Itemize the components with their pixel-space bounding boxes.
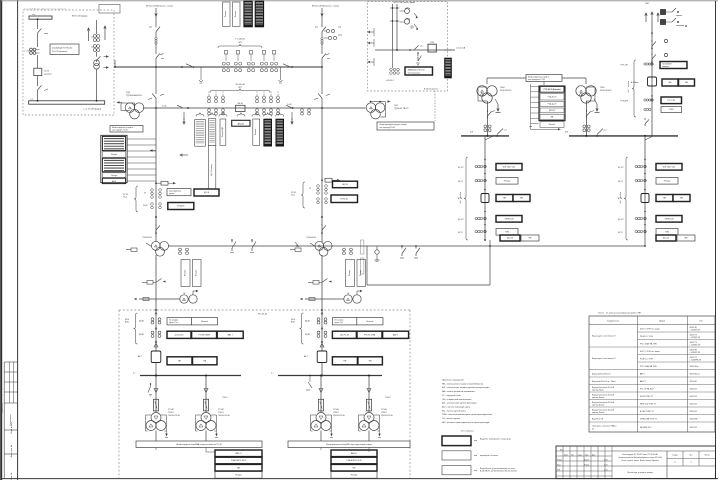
cabinet top label box xyxy=(526,75,562,82)
NTMI bay1 label xyxy=(142,237,152,239)
long label box left xyxy=(136,441,262,448)
bay 2 line top arrow xyxy=(321,8,323,25)
bay 1 line top arrow xyxy=(155,8,157,25)
table title xyxy=(598,312,641,315)
svg-text:УТМ-З: УТМ-З xyxy=(218,412,223,414)
svg-text:026027-РМ: 026027-РМ xyxy=(690,418,698,420)
svg-text:ЗРНВ-З АВ ТОПЗ ТЗ: ЗРНВ-З АВ ТОПЗ ТЗ xyxy=(640,417,657,420)
tie CT label xyxy=(210,84,270,93)
svg-text:ячейка: ячейка xyxy=(459,192,462,198)
svg-text:щитов 2 б/о: щитов 2 б/о xyxy=(334,322,343,324)
svg-text:А-З-Мрка: А-З-Мрка xyxy=(631,81,638,84)
svg-text:Инв. №: Инв. № xyxy=(10,472,13,480)
svg-text:Резерв: Резерв xyxy=(185,270,187,276)
svg-text:с.ш.: с.ш. xyxy=(32,14,36,16)
svg-text:ячейка: ячейка xyxy=(627,81,630,87)
NTMI bay1 xyxy=(151,241,168,256)
svg-text:1с-35: 1с-35 xyxy=(287,104,292,106)
transformer T1 frame wire xyxy=(121,103,135,111)
svg-text:РТ2 ТЗ, НВ, АУО: РТ2 ТЗ, НВ, АУО xyxy=(640,387,654,390)
KTP breaker 2SV-10 xyxy=(428,42,436,52)
dashed enclosure RU-10kV xyxy=(119,310,410,478)
svg-text:ЭКРА 208: ЭКРА 208 xyxy=(664,218,674,221)
text c.sh. 10kV xyxy=(83,108,102,111)
input bay1 brace xyxy=(125,313,138,344)
svg-text:ЩУ-В1: ЩУ-В1 xyxy=(139,321,144,323)
bay2 TN wire xyxy=(300,298,344,301)
transformer T3 label xyxy=(500,87,512,92)
frame bottom border line xyxy=(1,478,718,480)
input bay1 wire into box xyxy=(155,309,157,351)
bay2 fuse switch mid xyxy=(308,279,332,285)
svg-text:ТДТН-40 ТВ-УЗ: ТДТН-40 ТВ-УЗ xyxy=(394,108,409,110)
panel box 2 tall xyxy=(208,119,216,194)
line feeder top text xyxy=(645,3,659,22)
line feeder wire xyxy=(651,22,653,136)
bay1 fuse switch mid xyxy=(142,279,166,285)
svg-text:РТ2 СУ АВ, НВ, ЗРВ: РТ2 СУ АВ, НВ, ЗРВ xyxy=(640,365,657,368)
svg-text:АВ Т: АВ Т xyxy=(138,355,142,358)
svg-text:№1: №1 xyxy=(627,90,630,93)
svg-text:АВ Т: АВ Т xyxy=(304,355,308,358)
svg-text:авто зарядного ТС-35: авто зарядного ТС-35 xyxy=(528,79,545,81)
bus drop ground 2 xyxy=(279,67,283,83)
tie switch right xyxy=(286,105,293,109)
svg-text:ЩС-10 завод: ЩС-10 завод xyxy=(211,163,213,175)
svg-text:Разраб: Разраб xyxy=(557,459,562,461)
line feeder CTgroup xyxy=(620,62,687,69)
svg-text:ЩУ 107: ЩУ 107 xyxy=(458,219,464,221)
svg-text:РТД-35-УЗ: РТД-35-УЗ xyxy=(548,97,557,99)
svg-text:АВ2-О: АВ2-О xyxy=(235,452,241,455)
svg-text:Резерв: Резерв xyxy=(360,270,362,276)
input bay2 CT cluster xyxy=(305,318,327,338)
legend item 2 xyxy=(442,451,499,460)
bay 2 disconnector top xyxy=(315,25,326,37)
svg-text:Ввод защиты с обеспечения Т: Ввод защиты с обеспечения Т xyxy=(592,335,616,337)
outgoing chain A xyxy=(458,136,530,240)
tie breaker box SV xyxy=(236,103,246,112)
bay2 chain row1 xyxy=(309,181,358,194)
panel braces xyxy=(196,113,284,117)
svg-text:Ввод защиты с обеспечения Т: Ввод защиты с обеспечения Т xyxy=(592,358,616,360)
bay 2 earth switch tick xyxy=(326,54,330,59)
svg-text:Изм: Изм xyxy=(560,449,563,451)
bay1 chain row1 xyxy=(144,189,219,199)
left bottom stack xyxy=(215,450,262,478)
dashed enclosure OPU 10kV xyxy=(23,10,114,115)
switch lower 2 xyxy=(414,245,420,258)
frame left border line xyxy=(17,0,19,480)
bay2 brace xyxy=(291,182,305,208)
line feeder switch1 xyxy=(652,39,668,48)
svg-text:Лист: Лист xyxy=(689,455,693,457)
page left edge dark strip xyxy=(0,0,2,480)
input bay2 brace xyxy=(291,313,304,344)
svg-text:РЗ АУ 12 / 3 РН: РЗ АУ 12 / 3 РН xyxy=(640,335,653,338)
notes text block xyxy=(442,380,493,424)
svg-text:Ввод учебных щитов 35-10 кВ: Ввод учебных щитов 35-10 кВ xyxy=(592,402,614,404)
panel box 1 xyxy=(195,120,206,147)
svg-text:Ввод учебных щитов 35-10 кВ: Ввод учебных щитов 35-10 кВ xyxy=(592,387,614,389)
corner reference label xyxy=(24,7,66,10)
svg-text:ШЭ ТЗ / 3 РН сек. защит: ШЭ ТЗ / 3 РН сек. защит xyxy=(640,328,660,330)
bus 10kV right section1 xyxy=(461,132,509,137)
svg-text:Резерв: Резерв xyxy=(351,475,358,477)
svg-text:Шкаф зарядных переМВА секции у: Шкаф зарядных переМВА секции устройства … xyxy=(176,443,221,446)
panel bottom arrow xyxy=(180,154,188,156)
svg-text:должен: должен xyxy=(169,193,175,195)
line feeder CT top2 xyxy=(661,18,687,27)
corner small box xyxy=(99,5,120,14)
outgoing feeder arrows xyxy=(72,15,106,42)
bus bar section 10kV top xyxy=(29,14,52,19)
svg-text:Согласовано: Согласовано xyxy=(10,414,12,425)
svg-text:Резерв: Резерв xyxy=(504,181,511,183)
svg-text:ТБ/0,4/0,23 кБ: ТБ/0,4/0,23 кБ xyxy=(168,415,181,417)
panel box 5 xyxy=(253,119,260,145)
svg-text:Шкаф зарядного устройств: Шкаф зарядного устройств xyxy=(528,75,549,78)
input bay1 CT cluster xyxy=(139,318,161,338)
svg-text:НТМ-35: НТМ-35 xyxy=(341,198,349,200)
switch at bus2 bay xyxy=(306,375,312,390)
legend item 3 xyxy=(442,466,517,475)
svg-text:Взам. инв. №: Взам. инв. № xyxy=(10,444,13,457)
svg-text:Стадия: Стадия xyxy=(672,455,678,457)
chain bottom boxes B xyxy=(656,235,695,241)
KTP riser xyxy=(434,91,436,121)
svg-text:ШЭ ТЗ / 3 РН сек. защит: ШЭ ТЗ / 3 РН сек. защит xyxy=(640,351,660,353)
svg-text:026027 ВУ: 026027 ВУ xyxy=(690,327,697,329)
transformer T1 label xyxy=(126,92,143,97)
top box w2 xyxy=(233,2,241,26)
legend heading xyxy=(461,431,474,433)
svg-text:кВ: кВ xyxy=(592,428,594,430)
transformer T3 frame xyxy=(478,87,487,101)
svg-text:РТ-З БУ-10 Networkd: РТ-З БУ-10 Networkd xyxy=(543,88,560,91)
svg-text:НШ - узнаётся присоединения по: НШ - узнаётся присоединения по щита прис… xyxy=(442,422,490,424)
bay2 fuse arrow xyxy=(321,178,340,182)
svg-text:026027-03: 026027-03 xyxy=(690,403,697,405)
svg-text:присоед. Волжск: присоед. Волжск xyxy=(592,412,605,414)
svg-text:Полный щит устройств защиты: Полный щит устройств защиты xyxy=(627,471,654,474)
svg-text:ТМ-8: ТМ-8 xyxy=(600,87,604,89)
top box black1 xyxy=(244,1,253,27)
svg-text:Резерв: Резерв xyxy=(225,11,227,17)
bus entry arrow right xyxy=(117,101,122,103)
T2 label box below xyxy=(377,122,434,130)
bay 2 CT stack xyxy=(321,37,323,52)
transformer T1 xyxy=(125,103,144,119)
KTP left arrows xyxy=(367,28,374,66)
svg-text:ВЛ 110 кВ Волжская - Сизая: ВЛ 110 кВ Волжская - Сизая xyxy=(146,6,173,8)
svg-text:ЩУ 07: ЩУ 07 xyxy=(458,181,463,183)
KTP CT1 xyxy=(400,8,418,19)
line feeder dots xyxy=(651,32,653,97)
svg-text:ЩУ 07: ЩУ 07 xyxy=(618,181,623,183)
svg-text:ЗВНСЗ-Ш ТОПЗ ТЗ: ЗВНСЗ-Ш ТОПЗ ТЗ xyxy=(640,403,656,405)
svg-text:НВ - обозначение сборки блоков: НВ - обозначение сборки блоков (Network)… xyxy=(442,382,484,385)
line feeder switch2 xyxy=(652,53,668,61)
svg-text:ШЭ 2607 041: ШЭ 2607 041 xyxy=(663,167,676,169)
svg-text:10.19: 10.19 xyxy=(604,464,608,466)
KTP black box xyxy=(445,58,452,78)
svg-text:ЩУ-В1: ЩУ-В1 xyxy=(305,321,310,323)
svg-text:026027 В1у а2: 026027 В1у а2 xyxy=(690,373,700,375)
svg-text:Формат A1: Формат A1 xyxy=(1,402,4,413)
NTMI bay2 fuse left xyxy=(290,248,301,251)
svg-text:Шкаф розеточных barpSMD щит по: Шкаф розеточных barpSMD щит подстанции п… xyxy=(326,443,372,446)
chain bottom boxes A xyxy=(500,235,539,241)
lower rect left xyxy=(367,246,490,285)
KTP right arrow xyxy=(444,48,466,50)
panel right arrow xyxy=(291,112,293,124)
NTMI bay2 side CTs xyxy=(310,243,352,255)
label box relay panel xyxy=(50,44,79,55)
bay1 node 217 xyxy=(155,216,157,218)
svg-text:с. 012029Л 203: с. 012029Л 203 xyxy=(690,344,701,346)
svg-text:авто аккумул. Т1-35: авто аккумул. Т1-35 xyxy=(112,130,128,132)
node on top bus xyxy=(37,18,39,20)
svg-text:35/10,05/10,5: 35/10,05/10,5 xyxy=(600,90,612,92)
CT group label brace xyxy=(218,39,262,49)
bus bar 10kV bottom xyxy=(29,98,105,104)
bay1 TN wire xyxy=(134,298,180,301)
input bay2 label row1 xyxy=(332,318,383,325)
svg-text:ЩУ 07: ЩУ 07 xyxy=(618,232,623,234)
long label box right xyxy=(288,441,410,448)
KTP top text xyxy=(394,1,416,4)
svg-text:с. 012029Л 203: с. 012029Л 203 xyxy=(690,329,701,331)
bus2 switch above xyxy=(596,129,606,137)
bay1 chain row2 xyxy=(143,203,194,210)
svg-text:Усл. обознач.: Усл. обознач. xyxy=(461,431,474,433)
svg-text:ГИП: ГИП xyxy=(557,469,560,471)
TSN feeder 2 xyxy=(196,375,231,442)
svg-text:Ввод учебных щитов 35-10 кВ: Ввод учебных щитов 35-10 кВ xyxy=(592,394,614,396)
svg-text:Колич: Колич xyxy=(564,454,568,456)
frame right border line xyxy=(715,1,717,479)
input bay2 wire into box xyxy=(321,309,323,351)
svg-text:026027 ТЗ: 026027 ТЗ xyxy=(690,342,697,344)
lower wire risers xyxy=(490,240,645,246)
svg-text:ТТ ТБ-В НТ: ТТ ТБ-В НТ xyxy=(620,101,628,103)
svg-text:УТМ-З: УТМ-З xyxy=(381,412,386,414)
svg-text:с.ш.: с.ш. xyxy=(30,98,34,100)
svg-text:№2: №2 xyxy=(619,201,622,204)
svg-text:ЩР - обозначение шкафы управле: ЩР - обозначение шкафы управления присое… xyxy=(442,386,491,389)
svg-text:ТМН - панель релейной щита щит: ТМН - панель релейной щита щитов присоед… xyxy=(442,413,493,416)
svg-text:10.19: 10.19 xyxy=(604,469,608,471)
svg-text:В 10-УЗ абонент: В 10-УЗ абонент xyxy=(424,89,439,91)
transformer T2 xyxy=(366,103,385,119)
svg-text:АВ2 Т: АВ2 Т xyxy=(228,333,234,336)
svg-text:ТБ/0,4/0,23 кБ: ТБ/0,4/0,23 кБ xyxy=(218,415,231,417)
svg-text:Резерв: Резерв xyxy=(235,475,242,477)
bus node stub left xyxy=(114,60,116,68)
bay2 vertical wire xyxy=(321,108,323,242)
svg-text:Network: Network xyxy=(201,320,208,323)
svg-text:Резерв: Резерв xyxy=(235,11,237,17)
svg-text:ВЛ 10 кВ фидер: ВЛ 10 кВ фидер xyxy=(72,15,88,18)
svg-text:Тип: Тип xyxy=(699,321,702,323)
svg-text:В-1102 ТУМО ТЗ: В-1102 ТУМО ТЗ xyxy=(640,411,654,413)
bay2 chain row2 xyxy=(317,195,358,204)
svg-text:щитов 2 б/о: щитов 2 б/о xyxy=(169,322,178,324)
bus 110kV xyxy=(115,66,323,68)
svg-text:РУ-10 кВ: РУ-10 кВ xyxy=(258,314,268,316)
svg-text:присоед. Волжск: присоед. Волжск xyxy=(592,397,605,399)
svg-text:УТЛ-М: УТЛ-М xyxy=(333,409,339,411)
bay1 TN circles xyxy=(180,290,199,303)
transformer T3 xyxy=(477,86,497,103)
svg-text:ТБ-1: ТБ-1 xyxy=(123,197,127,199)
panel box 4 horizontal xyxy=(232,120,250,126)
TSN feeder 4 xyxy=(359,375,394,442)
wire breaker down xyxy=(38,76,49,101)
KTP switch h xyxy=(414,46,423,51)
svg-text:Пров.: Пров. xyxy=(557,464,562,466)
TSN feeder 1 xyxy=(146,375,181,442)
input bay2 label row2 xyxy=(332,331,408,338)
bus 10kV section1 xyxy=(133,373,241,376)
svg-text:±ЭП-10-1: ±ЭП-10-1 xyxy=(386,80,394,82)
RU-10 label xyxy=(258,314,268,316)
outgoing chain B xyxy=(618,136,690,240)
svg-text:Ввод учебных щитов 35-10 кВ: Ввод учебных щитов 35-10 кВ xyxy=(592,409,614,411)
svg-text:присоед. Волжск: присоед. Волжск xyxy=(592,405,605,407)
voltage transformer cluster xyxy=(24,48,40,54)
svg-text:ШЭ 2607 041: ШЭ 2607 041 xyxy=(503,167,516,169)
chain A bottom link xyxy=(484,239,490,241)
bay 2 lower earth ticks xyxy=(314,94,330,100)
svg-text:УТЛ-М: УТЛ-М xyxy=(218,409,224,411)
transformer T2 frame wire xyxy=(370,100,391,117)
svg-text:с. ш. 10 кВ фидер: с. ш. 10 кВ фидер xyxy=(83,108,102,111)
svg-text:1: 1 xyxy=(690,462,691,464)
svg-text:щитовая: щитовая xyxy=(44,74,52,76)
svg-text:ЩУ - обозначение щитов присоед: ЩУ - обозначение щитов присоедин, xyxy=(442,403,477,405)
svg-text:Шкаф приводов передач секции: Шкаф приводов передач секции xyxy=(380,123,407,126)
bay1 vertical wire xyxy=(155,108,157,242)
svg-text:ВЛ 110 кВ Волжская - Сизая: ВЛ 110 кВ Волжская - Сизая xyxy=(312,6,339,8)
T4 arrester xyxy=(594,99,600,113)
svg-text:ЗУ - зарядный блок,: ЗУ - зарядный блок, xyxy=(442,394,461,397)
svg-text:ЩУ 107: ЩУ 107 xyxy=(458,167,464,169)
svg-text:Петров: Петров xyxy=(584,464,589,466)
svg-text:УТМ-З: УТМ-З xyxy=(333,412,338,414)
TSN feeder 3 xyxy=(311,375,346,442)
svg-text:к 2С-10 кВ: к 2С-10 кВ xyxy=(456,48,466,50)
svg-text:с. 012029РВ 203: с. 012029РВ 203 xyxy=(690,359,702,361)
bus switch right xyxy=(283,64,293,68)
KTP horizontal wire xyxy=(375,49,455,51)
KTP label box xyxy=(405,67,433,75)
svg-text:проверка: проверка xyxy=(662,66,669,68)
CT quad on feeder xyxy=(91,20,100,52)
left switch at bus1 xyxy=(148,383,152,396)
svg-text:СВ - секционный выключатель,: СВ - секционный выключатель, xyxy=(442,398,472,401)
svg-text:Выделён. помещения и блоки уст: Выделён. помещения и блоки устр. xyxy=(480,439,512,441)
KTP CT group bottom xyxy=(386,50,399,82)
bus1 switch above xyxy=(496,129,506,137)
svg-text:1 с.: 1 с. xyxy=(271,373,275,375)
svg-text:УТЛ-М: УТЛ-М xyxy=(381,409,387,411)
bottom-left margin text xyxy=(0,0,1,1)
svg-text:ячейка: ячейка xyxy=(619,192,622,198)
svg-text:ЩУ 07: ЩУ 07 xyxy=(458,232,463,234)
bay 2 incoming line text xyxy=(312,6,339,8)
line feeder switch3 xyxy=(645,115,652,136)
svg-text:с. 012029Л 203: с. 012029Л 203 xyxy=(690,352,701,354)
svg-text:Иванов: Иванов xyxy=(584,459,589,461)
svg-text:ТДТН-40000/110: ТДТН-40000/110 xyxy=(126,95,143,97)
bus 10kV right section2 xyxy=(565,132,678,137)
svg-text:АВ2 ГЗ: АВ2 ГЗ xyxy=(640,380,646,383)
svg-text:Соединённые: Соединённые xyxy=(607,321,619,323)
KTP bottom text xyxy=(424,89,439,91)
panel box 7 black xyxy=(276,119,284,146)
line feeder breaker xyxy=(631,77,657,86)
svg-text:Подп: Подп xyxy=(585,454,589,456)
svg-text:ЩУ-В2: ЩУ-В2 xyxy=(139,334,144,336)
svg-text:ЩО - панель присоедин щита,: ЩО - панель присоедин щита, xyxy=(442,406,471,408)
cabinet wiring xyxy=(487,78,586,85)
svg-text:АВ-8: АВ-8 xyxy=(112,180,116,183)
svg-text:Резерв: Резерв xyxy=(255,129,257,135)
transformer T4 label xyxy=(600,87,612,92)
margin rotated text xyxy=(1,402,4,413)
line feeder breaker boxes xyxy=(662,79,695,86)
bay2 node 217 xyxy=(321,216,323,218)
bay2 feeder 10kV vertical xyxy=(321,255,323,310)
bay1 panel stack xyxy=(101,135,156,183)
interconnect switches xyxy=(230,239,256,252)
svg-text:ТСН-1: ТСН-1 xyxy=(222,397,228,399)
svg-text:Реконструкция ПС 110-35 Сизая,: Реконструкция ПС 110-35 Сизая, ПС-35-10 … xyxy=(622,454,658,456)
svg-text:РТ-2 ТН: РТ-2 ТН xyxy=(668,100,676,102)
T4 feeder down xyxy=(583,101,594,136)
NTMI bay2 xyxy=(315,241,332,256)
svg-text:Табл.1 - Те блок устанавливаем: Табл.1 - Те блок устанавливаем устройств… xyxy=(598,312,641,315)
line feeder CTgroup2 xyxy=(620,97,682,104)
svg-text:35/10,05/10,5: 35/10,05/10,5 xyxy=(500,90,512,92)
bay 1 disconnector top xyxy=(149,25,160,37)
bay2 TN circles xyxy=(344,290,363,303)
NTMI bay1 side CTs xyxy=(146,243,188,255)
rotated labels small xyxy=(361,240,364,274)
CT groups on bus xyxy=(222,51,277,72)
svg-text:ЩО-10: ЩО-10 xyxy=(663,238,670,240)
NTMI bay2 label xyxy=(306,237,316,239)
svg-text:ДФЗ-УЗ: ДФЗ-УЗ xyxy=(549,109,555,112)
svg-text:Дата: Дата xyxy=(592,454,595,456)
panel left arrow xyxy=(183,112,185,124)
svg-text:НВ, АУВ, НТО: НВ, АУВ, НТО xyxy=(640,426,652,429)
svg-text:ТТ РТ-2 НТ: ТТ РТ-2 НТ xyxy=(620,65,628,67)
svg-text:201-Р2-16: 201-Р2-16 xyxy=(340,334,349,336)
svg-text:ТМ-8: ТМ-8 xyxy=(500,87,504,89)
interconnect wire xyxy=(168,245,367,247)
input bay1 breaker xyxy=(138,351,217,365)
svg-text:авт. переезд ТБ-35: авт. переезд ТБ-35 xyxy=(380,127,396,129)
breaker box Q1 xyxy=(34,68,52,75)
svg-text:Резерв: Резерв xyxy=(664,181,671,183)
node bottom bus xyxy=(37,100,39,102)
line feeder CTgroup3 xyxy=(644,107,682,113)
transformer T2 label xyxy=(394,105,409,110)
KTP CT2 xyxy=(400,18,419,30)
